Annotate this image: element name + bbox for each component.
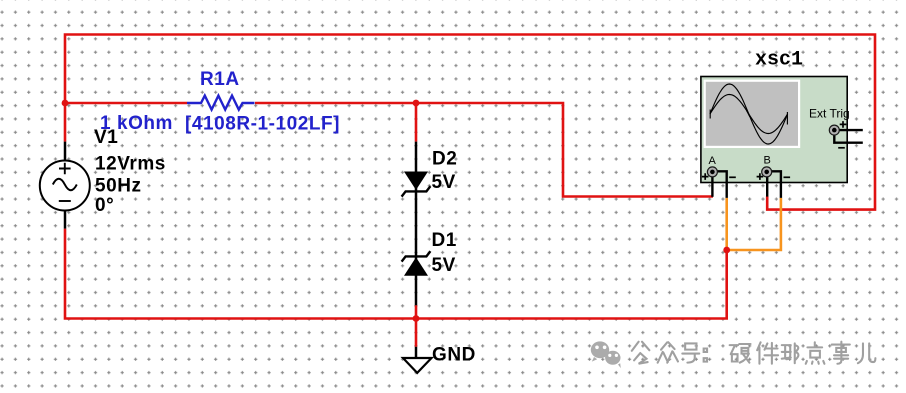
svg-text:5V: 5V	[432, 255, 456, 276]
svg-text:A: A	[709, 155, 717, 167]
svg-text:D1: D1	[432, 230, 457, 251]
svg-text:R1A: R1A	[200, 69, 240, 90]
svg-text:5V: 5V	[432, 172, 456, 193]
svg-text:12Vrms: 12Vrms	[95, 154, 166, 175]
svg-text:D2: D2	[432, 148, 457, 169]
svg-text:GND: GND	[432, 345, 476, 366]
svg-text:V1: V1	[94, 127, 118, 148]
svg-text:0°: 0°	[95, 195, 114, 216]
svg-text:[4108R-1-102LF]: [4108R-1-102LF]	[185, 114, 340, 135]
svg-text:xsc1: xsc1	[755, 49, 803, 72]
svg-text:Ext Trig: Ext Trig	[809, 107, 850, 121]
svg-text:B: B	[764, 154, 771, 166]
svg-text:50Hz: 50Hz	[95, 175, 142, 196]
